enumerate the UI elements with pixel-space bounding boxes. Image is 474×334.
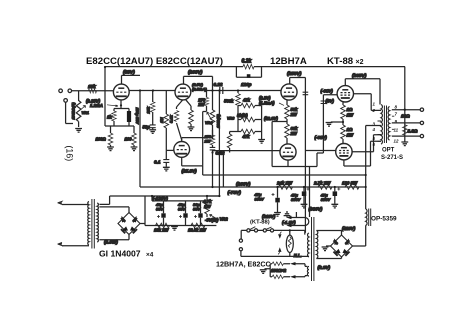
svg-text:20k: 20k <box>145 106 150 114</box>
transformer OPT core <box>384 106 386 144</box>
divider right leg with ground <box>258 106 265 144</box>
svg-text:7: 7 <box>395 112 398 117</box>
resistor 3.3 ohm NFB <box>403 125 418 136</box>
svg-text:(42.8V): (42.8V) <box>264 116 278 121</box>
tube V6 KT-88 upper <box>337 86 353 102</box>
svg-text:1: 1 <box>373 102 376 107</box>
svg-text:(6.3V): (6.3V) <box>318 265 331 270</box>
resistor 270 2W <box>197 91 212 166</box>
resistor 47k lower divider <box>230 129 262 139</box>
svg-text:E82CC(12AU7) E82CC(12AU7): E82CC(12AU7) E82CC(12AU7) <box>86 56 223 67</box>
svg-text:(-73V): (-73V) <box>228 190 242 196</box>
wire long vertical to -73V <box>218 91 220 197</box>
svg-text:(-130V): (-130V) <box>153 196 169 201</box>
svg-text:OP-5359: OP-5359 <box>371 216 397 223</box>
svg-text:OPT: OPT <box>382 148 395 154</box>
svg-text:5.6k: 5.6k <box>169 114 174 123</box>
resistor 10.5k 1W in rail <box>188 223 207 232</box>
svg-text:12BH7A, E82CC: 12BH7A, E82CC <box>216 260 271 269</box>
capacitor coupling a <box>303 92 309 95</box>
resistor 560k upper <box>224 91 240 132</box>
svg-text:(-68V): (-68V) <box>321 89 334 94</box>
resistor 15k <box>88 84 97 93</box>
transformer PT primary winding <box>88 202 89 246</box>
input jack <box>59 89 73 124</box>
svg-text:120 3W: 120 3W <box>342 181 358 186</box>
transformer PT core <box>92 199 94 249</box>
output terminals <box>420 108 423 138</box>
wire coupling drop to V7 grid <box>305 78 335 151</box>
wire output line 16ohm <box>392 109 420 111</box>
resistor 100ohm heater b <box>270 268 307 279</box>
svg-text:(65V): (65V) <box>123 70 135 76</box>
resistor 56k 2W <box>285 100 298 119</box>
wire V3 grid line <box>166 149 173 151</box>
svg-text:8: 8 <box>395 105 398 110</box>
wire parallel vertical <box>222 153 224 188</box>
svg-text:1.2mA: 1.2mA <box>90 103 103 108</box>
svg-text:1W: 1W <box>204 204 211 209</box>
capacitor 100u 50V <box>127 108 139 125</box>
ground VR1 <box>75 129 82 133</box>
svg-text:1Ω: 1Ω <box>347 127 353 132</box>
capacitor 120p parallel loop <box>236 67 261 87</box>
svg-text:5k(B): 5k(B) <box>237 113 248 118</box>
OPT tap stubs <box>378 111 395 142</box>
svg-text:560k: 560k <box>224 99 234 104</box>
wire secondary bottom lead <box>99 234 129 240</box>
capacitor 0.22 lower coupling <box>210 147 225 187</box>
capacitor 40u 50V b <box>177 201 188 226</box>
switch DPST <box>239 227 309 257</box>
OPT primary tap numbers <box>372 102 376 148</box>
tube V7 KT-88 lower <box>336 144 352 160</box>
capacitor 47u 350V b <box>290 187 310 208</box>
title KT-88 x2 <box>327 56 364 67</box>
resistor 560k lower <box>227 132 232 153</box>
capacitor coupling b <box>321 101 327 104</box>
capacitor 50u decoupling <box>143 125 157 134</box>
wire AC primary top with arrow <box>58 201 90 204</box>
resistor 1ohm 1W upper <box>341 102 354 119</box>
svg-text:GI 1N4007: GI 1N4007 <box>99 249 141 259</box>
capacitor 47u 350V c <box>320 187 341 208</box>
svg-text:(410V): (410V) <box>342 226 356 231</box>
wire V3 plate <box>182 138 213 142</box>
transformer OPT primary winding <box>381 105 382 145</box>
capacitor 0.1 grid <box>154 150 170 171</box>
rail negative bottom <box>145 225 216 227</box>
capacitor 40u 50V a <box>155 201 166 226</box>
svg-text:100μ 50V: 100μ 50V <box>135 108 139 125</box>
svg-text:6: 6 <box>373 142 376 147</box>
wire KT88 upper screen to UL tap <box>354 94 381 111</box>
wire secondary top lead <box>99 196 219 204</box>
svg-text:×2: ×2 <box>356 59 364 66</box>
resistor 100ohm heater a <box>270 262 307 267</box>
wire V1 plate top lead <box>122 75 141 84</box>
wire V1 plate row <box>129 90 174 92</box>
potentiometer 5k(B) <box>205 113 262 125</box>
tube V3 E82CC lower <box>174 142 190 158</box>
svg-text:16Ω: 16Ω <box>401 114 410 119</box>
svg-text:2.7k 2W: 2.7k 2W <box>313 181 331 186</box>
svg-text:VR4: VR4 <box>205 121 213 125</box>
rail -73V <box>207 195 219 197</box>
svg-text:S-271-S: S-271-S <box>381 155 403 161</box>
svg-text:100Ω: 100Ω <box>96 137 107 142</box>
resistor 100 <box>125 126 138 151</box>
svg-text:350V: 350V <box>321 197 331 202</box>
svg-text:24k 1W: 24k 1W <box>276 181 293 186</box>
capacitor 30u 50V c <box>193 201 203 226</box>
svg-text:(310V): (310V) <box>262 214 276 219</box>
wire feedback top rail right <box>254 66 405 68</box>
wire feedback left drop <box>104 67 106 126</box>
svg-text:10.5k 1W: 10.5k 1W <box>188 228 207 233</box>
wire bridge1 right loop <box>140 196 145 226</box>
capacitor 0.22 upper coupling <box>214 82 223 94</box>
ground bias chain <box>171 227 178 231</box>
wire coupling row to V4 grid <box>213 90 281 92</box>
capacitor 47u 350V a <box>254 187 281 219</box>
wire OPT center tap B+ <box>366 126 381 188</box>
rail B+ 268V <box>140 186 366 188</box>
svg-text:15k: 15k <box>88 84 96 89</box>
wire output line mid <box>392 122 420 124</box>
wire feedback vertical to NFB divider <box>404 67 406 142</box>
resistor 10k 2W in rail <box>154 223 170 232</box>
label (2.25V) 1.2mA <box>86 98 118 108</box>
svg-text:1k: 1k <box>107 115 112 120</box>
svg-text:2: 2 <box>372 108 376 113</box>
bias check arrows <box>278 232 281 255</box>
svg-text:(-1.3V): (-1.3V) <box>282 220 296 225</box>
svg-text:1Ω: 1Ω <box>347 107 353 112</box>
wire V5 plate to junction <box>272 160 317 166</box>
tube V4 12BH7A upper <box>281 84 297 100</box>
tube V2 E82CC second <box>175 84 191 100</box>
svg-text:4: 4 <box>372 127 376 132</box>
svg-text:350V: 350V <box>291 197 301 202</box>
resistor R-NFB 6.2k <box>242 59 255 69</box>
rail A 268V mid <box>203 174 366 176</box>
svg-text:(KT-88): (KT-88) <box>250 220 270 226</box>
svg-text:VR3: VR3 <box>227 117 235 121</box>
svg-text:100: 100 <box>125 137 133 142</box>
wire V1 cathode <box>120 100 122 108</box>
svg-text:100kΩ(A): 100kΩ(A) <box>71 102 76 120</box>
label (6.5V)(2.5mA) <box>192 82 207 91</box>
resistor 20k decoupling <box>145 91 155 125</box>
svg-text:2W: 2W <box>290 131 298 136</box>
wire V6 plate to OPT top <box>345 79 380 105</box>
resistor 68k 2W <box>285 119 298 144</box>
label OPT S-271-S <box>381 148 403 162</box>
wire AC primary bottom with arrow <box>58 242 90 245</box>
svg-text:47k: 47k <box>242 134 251 139</box>
wire V4 plate up and over <box>290 78 306 84</box>
svg-text:1W: 1W <box>347 113 354 118</box>
svg-text:0.1: 0.1 <box>154 160 161 165</box>
label GI 1N4007 x4 <box>99 249 154 259</box>
svg-text:50V: 50V <box>178 206 185 211</box>
node NFB junction <box>404 109 406 111</box>
resistor V2 cathode bias <box>185 99 194 130</box>
bridge rectifier 2 <box>331 235 353 257</box>
svg-text:-5V(W): -5V(W) <box>205 218 219 223</box>
svg-text:100Ω×2: 100Ω×2 <box>271 268 287 273</box>
svg-text:VR2: VR2 <box>220 217 229 222</box>
svg-text:2W: 2W <box>197 102 205 107</box>
lamp N.L. <box>286 230 301 257</box>
resistor 5.6k V2 cathode to V3 plate <box>169 100 183 140</box>
svg-text:2W: 2W <box>204 139 212 144</box>
wire V2 plate top route <box>184 76 213 90</box>
wire input to grid <box>72 90 113 92</box>
transformer heater left winding lower <box>307 266 309 276</box>
choke OP-5359 <box>366 187 371 242</box>
svg-text:(268V): (268V) <box>236 182 251 188</box>
svg-text:(-68V): (-68V) <box>315 135 328 140</box>
svg-text:10k 2W: 10k 2W <box>154 228 169 233</box>
svg-text:(258V): (258V) <box>287 71 302 77</box>
svg-text:5: 5 <box>373 136 376 141</box>
wire lower coupling to V5 grid <box>213 150 281 152</box>
wire B+ riser x140 <box>139 91 141 188</box>
rail B+ series resistor 2.7k 2W <box>313 181 332 190</box>
wire V3 cathode <box>182 158 203 176</box>
resistor 100ohm <box>96 126 114 151</box>
svg-text:N.L.: N.L. <box>294 253 302 258</box>
wire KT88 upper grid line <box>317 95 337 167</box>
svg-text:3.3Ω: 3.3Ω <box>408 129 418 134</box>
wire V7 plate to OPT bottom <box>344 141 381 166</box>
ground cathode KT88 <box>326 119 343 126</box>
resistor 4.7k 1W VR2 <box>202 196 228 223</box>
svg-text:47k: 47k <box>242 98 251 103</box>
wire heater vertical b <box>309 167 311 218</box>
ground NFB <box>401 142 408 146</box>
transformer heater right winding <box>316 231 317 259</box>
svg-text:0.22: 0.22 <box>214 82 223 87</box>
wire heater vertical a <box>304 151 306 233</box>
label (8.5V)(1.5mA) <box>259 96 284 106</box>
ground heater <box>260 264 270 277</box>
potentiometer 100k(B) AC balance <box>207 91 221 140</box>
wire KT88 lower screen to UL tap <box>352 135 381 152</box>
svg-text:2W: 2W <box>290 112 298 117</box>
svg-text:50V: 50V <box>193 206 200 211</box>
resistor 270 2W column <box>204 130 215 148</box>
svg-text:50V: 50V <box>156 206 163 211</box>
svg-text:1M: 1M <box>159 117 164 123</box>
svg-text:×4: ×4 <box>146 252 154 259</box>
svg-text:6.2k: 6.2k <box>242 59 252 65</box>
svg-text:12BH7A: 12BH7A <box>270 56 307 67</box>
ground bridge2 <box>322 246 331 251</box>
transformer OPT secondary winding <box>388 107 390 141</box>
rail B+ series resistor 24k 1W <box>276 181 293 190</box>
svg-text:11: 11 <box>394 128 399 133</box>
wire heater AC to bridge2 top <box>316 231 341 236</box>
OPT secondary tap numbers <box>394 105 399 144</box>
wire bootstrap from cathode junction <box>272 122 287 167</box>
wire heater AC to bridge2 bottom <box>316 257 341 259</box>
svg-text:12: 12 <box>394 139 399 144</box>
transformer PT secondary winding <box>97 203 98 242</box>
tube V5 12BH7A lower <box>280 144 296 160</box>
svg-text:350V: 350V <box>255 197 265 202</box>
svg-text:(380V): (380V) <box>309 207 323 212</box>
svg-text:(1.5mA): (1.5mA) <box>259 101 275 106</box>
svg-text:(16): (16) <box>65 146 75 162</box>
svg-text:VR1: VR1 <box>82 111 89 115</box>
transformer heater left winding upper <box>308 233 309 257</box>
potentiometer VR1 100k(A) <box>71 91 89 127</box>
bias chain top rail <box>152 196 207 201</box>
transformer heater core <box>312 217 314 281</box>
resistor 1k cathode <box>107 111 116 121</box>
wire secondary lower tap <box>99 207 129 213</box>
svg-text:50μ: 50μ <box>143 125 151 130</box>
wire feedback top rail left <box>105 66 243 68</box>
twisted pair loop KT-88 heater <box>284 212 309 227</box>
svg-text:(0V): (0V) <box>326 99 335 104</box>
rail B+ series resistor 120 3W <box>342 181 359 190</box>
svg-text:KT-88: KT-88 <box>327 56 354 67</box>
svg-text:120p: 120p <box>241 82 252 87</box>
svg-text:(335V): (335V) <box>352 73 367 79</box>
tube V1 E82CC first half <box>113 84 129 100</box>
cathode loop <box>105 109 134 127</box>
svg-text:(2.5mA): (2.5mA) <box>192 86 207 91</box>
svg-text:(268V): (268V) <box>188 70 203 76</box>
resistor 1M grid leak V3 <box>159 91 169 151</box>
resistor 47k upper divider <box>238 98 262 108</box>
resistor 1ohm 1W lower <box>341 122 354 143</box>
bridge rectifier 1 <box>118 213 140 235</box>
svg-text:(25.8V): (25.8V) <box>182 169 198 174</box>
wire bridge2 feed <box>353 242 366 247</box>
svg-text:1W: 1W <box>347 133 354 138</box>
wire output line bottom <box>392 135 420 137</box>
